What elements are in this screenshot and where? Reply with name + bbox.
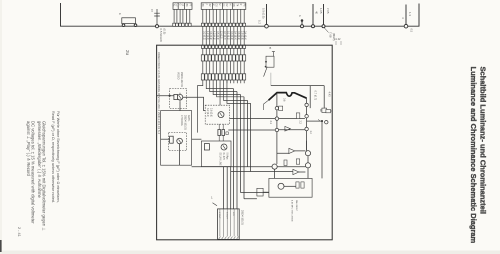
wire cross links: [228, 119, 275, 130]
wire into thick trace: [264, 100, 269, 110]
resistor R130: [284, 160, 287, 166]
crystal Q1: [322, 108, 327, 112]
board corner ticks mp: [336, 41, 341, 45]
wire riser node D: [258, 4, 269, 28]
oscillator sub-board: [269, 178, 312, 197]
svg-text:2.8 (2.8): 2.8 (2.8): [240, 31, 243, 40]
svg-text:0.5 SCHW: 0.5 SCHW: [159, 29, 163, 43]
wire V1: [276, 93, 278, 164]
svg-text:0.3 (0.3): 0.3 (0.3): [230, 31, 233, 40]
svg-text:gemessen. „Wiedergabe“ (.) ≙ A: gemessen. „Wiedergabe“ (.) ≙ Aufnahme: [37, 121, 42, 198]
scan corner tick: [0, 240, 2, 252]
resistor R110 R111: [219, 124, 223, 141]
svg-text:7.05: 7.05: [326, 8, 330, 14]
svg-text:2.6 (2.6): 2.6 (2.6): [210, 108, 213, 117]
svg-text:29304-103.01: 29304-103.01: [184, 115, 187, 130]
transistor T107: [305, 163, 310, 168]
svg-text:29304-102.01: 29304-102.01: [180, 72, 183, 87]
long wire verticals to connector: [234, 89, 251, 209]
module M3 dashed shield: [205, 105, 229, 124]
wire links lower: [275, 141, 308, 179]
pin elbows to long verticals: [198, 80, 251, 133]
svg-text:PAL IDENT: PAL IDENT: [295, 200, 298, 212]
wire T102 emitter down: [179, 144, 181, 165]
svg-text:40: 40: [315, 11, 319, 15]
connector pins middle: [203, 26, 244, 45]
svg-text:Read F (µF) or Ω, respectively: Read F (µF) or Ω, respectively unless ot…: [51, 111, 55, 203]
svg-text:0.7 (0.7): 0.7 (0.7): [314, 91, 318, 101]
svg-text:DELAY LINE: DELAY LINE: [219, 153, 222, 167]
capacitor C101: [150, 9, 160, 28]
op-amp A3: [293, 169, 299, 174]
svg-text:(0.5): (0.5): [163, 29, 167, 35]
svg-text:0.2: 0.2: [258, 20, 262, 24]
node circles V1: [275, 107, 278, 110]
module M2 shield box: [161, 111, 192, 166]
resistor R131: [296, 159, 299, 164]
svg-text:0.5 (0.5): 0.5 (0.5): [216, 31, 219, 40]
wire riser node F: [319, 4, 330, 28]
resistor R115: [204, 144, 209, 150]
svg-text:C OUT: C OUT: [225, 212, 227, 219]
module M1 shield (dashed): [170, 89, 187, 109]
transistor T106: [305, 151, 310, 156]
svg-text:G: G: [179, 4, 181, 6]
connector strip on bus: [173, 23, 176, 26]
svg-text:4.3 (4.3): 4.3 (4.3): [213, 31, 216, 40]
svg-text:12 (12): 12 (12): [220, 31, 223, 39]
svg-text:VIDEO: VIDEO: [177, 72, 180, 80]
wire top supply bus: [61, 3, 420, 26]
svg-text:0.6 (0.6): 0.6 (0.6): [237, 31, 240, 40]
svg-text:DL 470: DL 470: [222, 153, 224, 161]
svg-text:0.6 (0.6): 0.6 (0.6): [209, 31, 212, 40]
connector X7 hatching: [219, 237, 239, 240]
svg-text:Schaltbild Luminanz- und Chrom: Schaltbild Luminanz- und Chrominanzteil: [479, 67, 488, 215]
connector X7 arrow 1: [213, 203, 218, 206]
wire riser node G: [401, 5, 414, 33]
svg-text:CHROMA: CHROMA: [180, 115, 183, 126]
svg-text:1.05: 1.05: [319, 8, 323, 14]
resistor R101: [174, 94, 178, 99]
transistor T101: [177, 94, 183, 100]
svg-text:29304-105.01: 29304-105.01: [241, 210, 244, 225]
connector top label box B: [201, 3, 246, 10]
svg-text:41 42: 41 42: [334, 37, 341, 41]
wire to delay output: [241, 193, 269, 199]
svg-text:1.3: 1.3: [408, 12, 412, 16]
svg-text:4.43: 4.43: [327, 92, 331, 98]
svg-text:AMPL: AMPL: [187, 115, 190, 122]
svg-text:5.1 (5.1): 5.1 (5.1): [226, 31, 229, 40]
svg-text:4.43 MHz OSC 29304: 4.43 MHz OSC 29304: [291, 200, 293, 222]
svg-text:3.2 (3.2): 3.2 (3.2): [206, 108, 209, 117]
resistor R105: [170, 136, 174, 143]
node b stub: [298, 15, 304, 28]
wire switch to lower: [270, 73, 272, 86]
wire V2: [306, 98, 308, 150]
crystal loop: [271, 86, 324, 109]
wire M1 down: [179, 101, 181, 110]
transistor T105: [272, 164, 277, 169]
svg-text:0.2 (0.2): 0.2 (0.2): [202, 31, 205, 40]
resistor R140 R141: [296, 182, 299, 188]
connector X7 (bottom): [218, 209, 240, 240]
resistor R126: [326, 109, 331, 112]
resistor R120: [279, 106, 283, 110]
wire M1 output: [183, 97, 205, 110]
svg-text:0.7 (0.7): 0.7 (0.7): [223, 31, 226, 40]
transistor T103: [218, 112, 224, 118]
svg-text:0.64µs: 0.64µs: [226, 153, 228, 161]
module M2 inner dashed: [169, 133, 187, 151]
wire M2 output right: [192, 138, 202, 140]
svg-text:1.2 (1.2): 1.2 (1.2): [206, 31, 209, 40]
svg-text:B: B: [270, 46, 272, 50]
test point TP1: [325, 121, 328, 124]
svg-text:7.68: 7.68: [329, 32, 333, 38]
svg-text:12V: 12V: [232, 212, 234, 216]
op-amp A1: [285, 126, 291, 131]
svg-text:0.4 (0.4): 0.4 (0.4): [244, 31, 247, 40]
transistor T108: [278, 183, 284, 189]
relay K1: [118, 13, 137, 27]
wire riser node E: [312, 4, 319, 28]
op-amp A2: [289, 148, 295, 153]
transistor T104: [221, 144, 227, 150]
svg-text:0.5 (0.5): 0.5 (0.5): [262, 8, 266, 18]
pin tails inside box: [203, 48, 244, 105]
wire into M2: [161, 138, 170, 140]
wire chroma row: [192, 167, 306, 172]
main board outline: [157, 45, 333, 240]
svg-text:2 - 41: 2 - 41: [17, 227, 21, 237]
connector strip on box edge: [201, 45, 204, 48]
connector top label box A: [173, 3, 192, 10]
module M4 delay line box: [201, 141, 231, 167]
coil L1: [257, 188, 263, 196]
svg-text:Y OUT: Y OUT: [218, 212, 220, 219]
connector pins upper: [174, 9, 244, 23]
transistor T102: [177, 138, 183, 144]
label 7.68 MHz: [325, 28, 337, 41]
svg-text:Luminance and Chrominance Sche: Luminance and Chrominance Schematic Diag…: [469, 67, 478, 244]
svg-text:Für Werte ohne Bezeichnung F (: Für Werte ohne Bezeichnung F (µF) oder Ω…: [56, 111, 60, 203]
wire input to M1: [157, 95, 174, 97]
svg-text:9.4 (9.4): 9.4 (9.4): [233, 31, 236, 40]
switch S1: [264, 46, 275, 77]
thick luminance trace: [269, 93, 307, 101]
svg-text:against ⊥ „Play“ (.) ≙ Record: against ⊥ „Play“ (.) ≙ Record: [26, 121, 31, 177]
wire rungs: [279, 119, 305, 130]
svg-text:2u: 2u: [125, 50, 130, 56]
wire burst line: [307, 120, 322, 122]
svg-text:0.5: 0.5: [410, 29, 414, 33]
resistor R122: [296, 113, 300, 119]
